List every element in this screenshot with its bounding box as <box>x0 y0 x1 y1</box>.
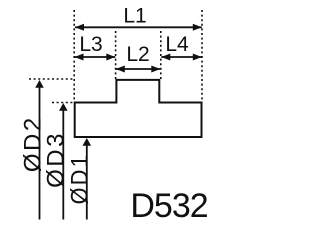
svg-text:ØD1: ØD1 <box>65 153 92 204</box>
svg-text:L3: L3 <box>79 33 102 56</box>
part outline <box>75 80 202 137</box>
diameter leader D3 arrow <box>59 103 68 220</box>
dimension L1 <box>75 4 202 30</box>
dimension L2 <box>116 43 161 72</box>
diameter leader D1 arrow <box>83 138 92 220</box>
svg-text:L2: L2 <box>126 43 149 66</box>
diameter leader D2 dotted line <box>29 78 75 80</box>
diameter leader D2 arrow <box>35 80 44 220</box>
extension line boss right (x=160.8) <box>160 31 162 79</box>
extension line boss left (x=115.6) <box>115 31 117 79</box>
svg-text:D532: D532 <box>130 187 207 225</box>
dimension L3 <box>75 33 116 61</box>
svg-text:L1: L1 <box>123 4 146 27</box>
diameter leader D3 dotted line <box>52 102 75 104</box>
svg-text:L4: L4 <box>165 33 189 56</box>
dimension L4 <box>161 33 202 61</box>
extension line left (x=74) <box>73 10 75 102</box>
extension line right (x=202) <box>201 10 203 102</box>
